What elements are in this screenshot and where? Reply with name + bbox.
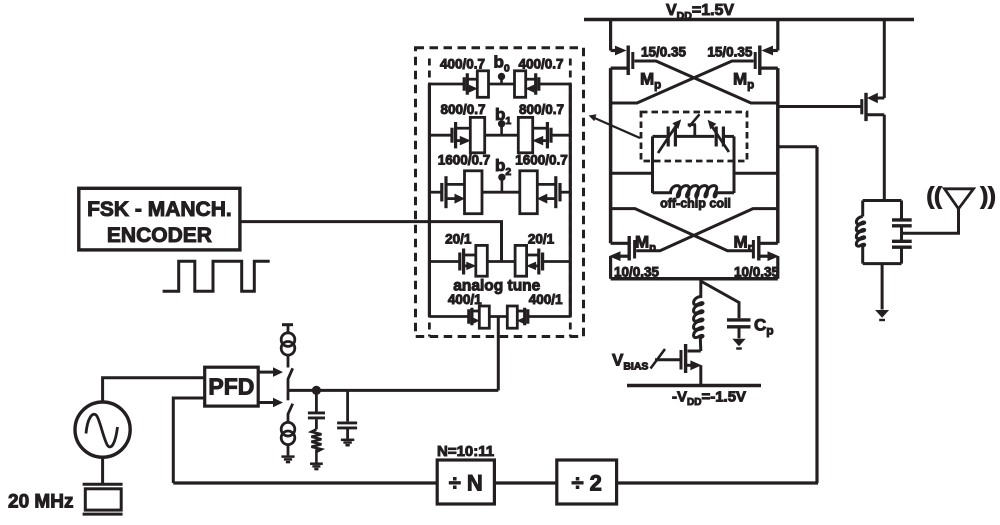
- slash VBIAS external: [651, 349, 666, 369]
- varactor C left: [658, 119, 681, 153]
- oscillator 20MHz circle: [75, 402, 130, 457]
- wire divider feedback vertical: [815, 147, 818, 483]
- svg-text:20 MHz: 20 MHz: [8, 492, 73, 513]
- ground below charge pump: [281, 457, 294, 463]
- label 10/0.35 left: [614, 265, 660, 280]
- capacitor tank C1: [892, 220, 912, 226]
- transistor bank 20/1 right: [515, 245, 570, 276]
- wire oscillator to PA gate: [778, 105, 862, 108]
- bank left rail: [428, 84, 431, 317]
- wire junction to C2: [346, 390, 349, 421]
- svg-text:-VDD=-1.5V: -VDD=-1.5V: [672, 389, 746, 409]
- transistor bank 400/1 left: [429, 306, 489, 328]
- VDD power rail: [584, 18, 914, 22]
- svg-text:20/1: 20/1: [445, 232, 472, 247]
- label b1: [495, 105, 511, 127]
- svg-text:800/0.7: 800/0.7: [440, 102, 485, 117]
- transistor bank 800/0.7 right: [518, 117, 570, 152]
- svg-text:1600/0.7: 1600/0.7: [515, 153, 568, 168]
- transistor Mn left (10/0.35): [609, 236, 635, 279]
- wire left rail to tank: [611, 172, 653, 175]
- svg-text:off-chip coil: off-chip coil: [660, 197, 731, 211]
- svg-text:PFD: PFD: [208, 374, 254, 400]
- label Mn right: [734, 233, 755, 255]
- resistor loop R1: [311, 429, 321, 462]
- arrow PFD down output: [258, 398, 283, 408]
- wire row4 bus: [487, 260, 515, 263]
- capacitor loop C1: [308, 413, 325, 418]
- label N=10:11: [437, 443, 494, 460]
- svg-text:N=10:11: N=10:11: [437, 443, 494, 460]
- wire row5 bus: [489, 315, 507, 318]
- ground below C2: [341, 440, 354, 445]
- wire C1 to R1: [315, 419, 318, 429]
- label 20/1 row4 left: [445, 232, 472, 247]
- svg-text:ENCODER: ENCODER: [107, 224, 212, 247]
- wire Mn-right drain to left gate: [636, 209, 778, 251]
- inductor output tank: [856, 217, 864, 247]
- label Cp: [754, 316, 774, 338]
- current source up: [281, 333, 295, 355]
- wire to Cp: [702, 282, 740, 319]
- node left oscillator output rail: [609, 68, 613, 243]
- block PFD: [205, 367, 259, 406]
- transistor PA: [862, 20, 885, 201]
- transistor Mp left (15/0.35): [611, 20, 633, 76]
- label 1600/0.7 row3 right: [515, 153, 568, 168]
- wire oscillator to crystal: [101, 457, 104, 484]
- block FSK-MANCH ENCODER: [79, 188, 240, 250]
- label off-chip coil: [660, 197, 731, 211]
- varactor dashed box: [641, 112, 747, 161]
- antenna waves left: [927, 183, 943, 209]
- transistor bank 400/1 right: [507, 306, 570, 328]
- transistor Mp right (15/0.35): [755, 20, 778, 76]
- label b2: [495, 156, 511, 178]
- wire PFD input 2: [173, 398, 204, 483]
- supply tick above charge pump: [282, 325, 293, 333]
- switch up: [288, 355, 293, 390]
- node loop filter junction: [312, 386, 321, 395]
- label FSK - MANCH.: [87, 198, 232, 221]
- wire tank to right rail: [734, 172, 778, 175]
- arrow PFD up output: [258, 367, 283, 377]
- label VBIAS: [612, 351, 648, 373]
- transistor bank 1600/0.7 right: [520, 171, 571, 214]
- svg-text:15/0.35: 15/0.35: [641, 45, 687, 60]
- svg-text:FSK - MANCH.: FSK - MANCH.: [87, 198, 232, 221]
- label 400/0.7 row1 right: [518, 57, 563, 72]
- wire row3 bus: [482, 191, 520, 194]
- svg-text:)): )): [981, 183, 996, 209]
- current source down: [281, 422, 295, 444]
- wire Mn source rail: [611, 277, 778, 281]
- capacitor tank C2: [892, 241, 912, 247]
- wire C2 to ground: [346, 428, 349, 439]
- svg-text:15/0.35: 15/0.35: [707, 45, 753, 60]
- label 400/1 row5 left: [448, 292, 482, 307]
- wire row2 bus: [485, 134, 519, 137]
- node b1 dot: [498, 120, 505, 135]
- label Mn left: [635, 233, 656, 255]
- capacitor Cp: [727, 320, 751, 338]
- ground below R1: [310, 464, 323, 469]
- inductor off-chip coil: [653, 186, 735, 197]
- ground below Cp: [732, 339, 745, 349]
- wire VBIAS gate lead: [655, 358, 681, 361]
- wire junction to C1: [315, 390, 318, 411]
- dashed box capacitor bank: [416, 48, 584, 337]
- label 800/0.7 row2 right: [519, 102, 564, 117]
- transistor bank 400/0.7 right: [515, 71, 571, 98]
- node b2 dot: [498, 174, 505, 193]
- wire Mp-right gate to left output: [611, 61, 754, 103]
- negative supply rail: [627, 384, 761, 388]
- crystal symbol: [83, 484, 123, 514]
- label 15/0.35 right: [707, 45, 753, 60]
- svg-text:1600/0.7: 1600/0.7: [438, 153, 491, 168]
- wire tank loop sides: [653, 136, 735, 193]
- transistor bank 1600/0.7 left: [429, 171, 482, 214]
- label VDD=1.5V: [666, 2, 734, 22]
- antenna: [945, 189, 974, 209]
- label 20/1 row4 right: [528, 232, 555, 247]
- label Mp right: [733, 70, 754, 92]
- ground below tank: [875, 310, 889, 320]
- svg-text:((: ((: [927, 183, 943, 209]
- arrow varactor box to bank: [589, 114, 640, 138]
- label 1600/0.7 row3 left: [438, 153, 491, 168]
- label b0: [494, 53, 510, 75]
- wire analog tune to loop filter: [497, 317, 500, 391]
- transistor bank 20/1 left: [429, 245, 487, 276]
- wire tank to ground: [881, 264, 884, 310]
- capacitor loop C2: [337, 423, 357, 428]
- svg-text:20/1: 20/1: [528, 232, 555, 247]
- wire encoder to analog tune: [240, 222, 502, 262]
- transistor bank 400/0.7 left: [429, 71, 488, 98]
- wire current source to ground: [287, 445, 290, 456]
- wire Mp-left gate to right output: [634, 61, 777, 103]
- svg-text:400/1: 400/1: [448, 292, 482, 307]
- output tank box: [863, 201, 902, 264]
- trimmer symbol middle: [688, 114, 700, 136]
- label divide by 2: [571, 471, 601, 496]
- wire tap to antenna: [902, 207, 959, 233]
- node right oscillator output rail: [776, 68, 780, 243]
- antenna waves right: [981, 183, 996, 209]
- wire charge pump output: [288, 389, 498, 392]
- label analog tune: [453, 277, 540, 294]
- transistor Mn right (10/0.35): [753, 236, 779, 279]
- varactor C right: [708, 120, 729, 152]
- label 10/0.35 right: [734, 265, 780, 280]
- label -VDD=-1.5V: [672, 389, 746, 409]
- bank right rail: [569, 84, 572, 317]
- label 400/1 row5 right: [529, 292, 563, 307]
- wire PLL feedback bottom: [173, 481, 437, 484]
- inductor tail coil: [694, 281, 703, 352]
- switch down: [288, 390, 293, 422]
- label 800/0.7 row2 left: [440, 102, 485, 117]
- wire divN to div2: [494, 481, 556, 484]
- dashed inner rails: [429, 59, 570, 337]
- svg-text:400/0.7: 400/0.7: [440, 57, 485, 72]
- square wave symbol: [163, 261, 270, 291]
- label PFD: [208, 374, 254, 400]
- wire crystal to PFD: [103, 378, 205, 402]
- svg-text:÷ N: ÷ N: [449, 471, 483, 496]
- transistor tail current source: [681, 344, 702, 386]
- node b0 dot: [498, 73, 505, 84]
- svg-text:÷ 2: ÷ 2: [571, 471, 601, 496]
- label Mp left: [640, 70, 661, 92]
- svg-text:400/1: 400/1: [529, 292, 563, 307]
- label divide by N: [449, 471, 483, 496]
- sine symbol: [86, 414, 118, 447]
- label 20 MHz: [8, 492, 73, 513]
- wire Mn-left drain to right gate: [611, 209, 752, 251]
- svg-text:400/0.7: 400/0.7: [518, 57, 563, 72]
- block divide by N: [437, 460, 494, 504]
- wire div2 to feedback riser: [617, 481, 818, 484]
- label 15/0.35 left: [641, 45, 687, 60]
- block divide by 2: [557, 460, 617, 504]
- label ENCODER: [107, 224, 212, 247]
- wire row1 bus: [489, 83, 515, 86]
- transistor bank 800/0.7 left: [429, 117, 484, 152]
- wire oscillator to divider feedback: [778, 145, 817, 148]
- svg-text:800/0.7: 800/0.7: [519, 102, 564, 117]
- label 400/0.7 row1 left: [440, 57, 485, 72]
